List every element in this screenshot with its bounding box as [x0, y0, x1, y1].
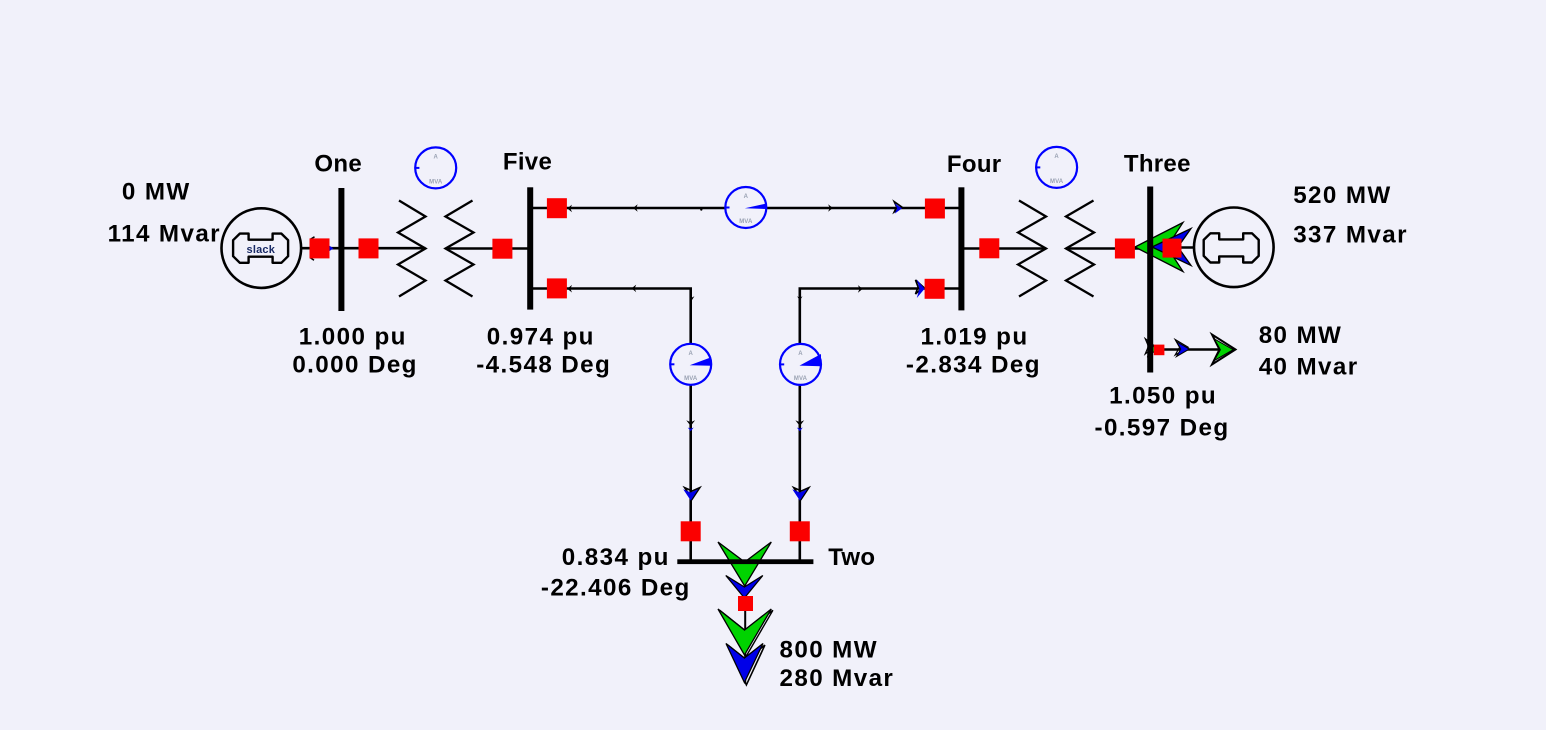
- svg-text:slack: slack: [247, 244, 276, 256]
- svg-text:Three: Three: [1124, 151, 1191, 178]
- svg-text:A: A: [744, 194, 749, 200]
- bus One: [338, 188, 344, 311]
- load Two arrowhead outline behind lower green: [720, 610, 773, 656]
- svg-text:Four: Four: [947, 151, 1002, 178]
- breaker left drop at Two: [681, 521, 701, 541]
- bus Three: [1147, 187, 1153, 373]
- breaker right drop at Two: [790, 521, 810, 541]
- load Three bus-side arrow MW (green): [1147, 341, 1157, 357]
- transformer T2 coil left: [1018, 201, 1046, 297]
- wire line Five to Two (left drop): [533, 289, 691, 560]
- tiny arrow below right corner: [797, 296, 802, 300]
- gen Three flow arrow MW (green, into bus): [1135, 223, 1183, 272]
- svg-text:-2.834 Deg: -2.834 Deg: [906, 352, 1041, 379]
- breaker T2 - bus Three: [1115, 239, 1135, 259]
- wire bus One to transformer T1: [344, 247, 426, 250]
- svg-text:114 Mvar: 114 Mvar: [108, 220, 221, 247]
- arrow on right drop line mid (black, right): [858, 285, 863, 293]
- bus Two: [677, 559, 813, 564]
- generator at bus Three: [1194, 208, 1274, 288]
- wire load Three stem: [1150, 348, 1234, 350]
- transformer T1 coil left: [398, 201, 426, 297]
- load Three mid arrow outline: [1175, 340, 1188, 355]
- tiny arrow below left corner: [690, 296, 695, 300]
- wire bus Four to transformer T2: [964, 247, 1046, 250]
- breaker load Three: [1154, 345, 1165, 356]
- svg-text:0 MW: 0 MW: [122, 179, 191, 206]
- arrow on left drop line near Five (black, left): [567, 285, 572, 293]
- load Three arrow MW (green): [1214, 339, 1233, 361]
- MVA gauge line Four-Two: [780, 344, 821, 385]
- svg-text:-4.548 Deg: -4.548 Deg: [476, 352, 611, 379]
- breaker bus Four - T2: [979, 238, 999, 258]
- load Two arrow Mvar lower (blue): [726, 644, 763, 683]
- svg-text:A: A: [688, 351, 693, 357]
- wire load Two stem: [744, 562, 746, 684]
- breaker T1 - bus Five: [492, 239, 512, 259]
- transformer T1 coil right: [446, 201, 474, 297]
- MVA gauge transformer T1: [415, 147, 456, 188]
- svg-text:One: One: [314, 150, 362, 177]
- svg-text:80 MW: 80 MW: [1259, 322, 1343, 349]
- svg-text:40 Mvar: 40 Mvar: [1259, 354, 1359, 381]
- arrow on top line mid-right (black, right): [828, 204, 833, 212]
- svg-text:A: A: [1054, 154, 1059, 160]
- wire line Four to Two (right drop): [800, 289, 959, 560]
- generator slack at bus One: [221, 208, 301, 288]
- svg-text:-22.406 Deg: -22.406 Deg: [541, 575, 691, 602]
- breaker bus One - T1: [359, 238, 379, 258]
- breaker bus Four lower line: [925, 279, 945, 299]
- svg-text:280 Mvar: 280 Mvar: [780, 665, 895, 692]
- load Two arrow Mvar upper (blue): [726, 576, 763, 599]
- breaker bus Five top line: [547, 198, 567, 218]
- MVA gauge line Five-Two: [670, 344, 711, 385]
- svg-text:-0.597 Deg: -0.597 Deg: [1095, 415, 1230, 442]
- breaker load Two: [738, 596, 753, 611]
- svg-text:800 MW: 800 MW: [780, 637, 878, 664]
- tiny flow marks near slack breaker: [310, 237, 315, 260]
- tiny blue arrow tip at bus One: [330, 246, 334, 251]
- svg-text:1.050 pu: 1.050 pu: [1109, 383, 1217, 410]
- gen Three flow arrow Mvar (blue, into bus): [1152, 229, 1191, 266]
- load Two arrowhead outline (black tip): [728, 645, 765, 685]
- load Two arrow MW upper (green): [718, 542, 771, 586]
- load Two arrow MW lower (green): [718, 609, 771, 655]
- svg-text:MVA: MVA: [794, 376, 808, 382]
- dot on top line: [700, 208, 702, 210]
- arrow down on left drop (black): [686, 420, 695, 431]
- svg-text:0.974 pu: 0.974 pu: [487, 323, 595, 350]
- breaker bus Four top line: [925, 199, 945, 219]
- arrow down blue on left drop: [683, 488, 700, 501]
- wire bus Three to gen Three: [1150, 246, 1194, 249]
- svg-text:337 Mvar: 337 Mvar: [1293, 222, 1408, 249]
- wire transformer T1 to bus Five: [446, 247, 529, 250]
- svg-text:MVA: MVA: [1050, 179, 1064, 185]
- arrow on top line near Five (black, left): [567, 205, 572, 213]
- wire gen One to bus One: [301, 247, 339, 250]
- svg-text:520 MW: 520 MW: [1293, 182, 1391, 209]
- svg-text:MVA: MVA: [739, 219, 753, 225]
- svg-text:0.834 pu: 0.834 pu: [562, 544, 670, 571]
- svg-text:1.000 pu: 1.000 pu: [299, 323, 407, 350]
- svg-text:A: A: [798, 351, 803, 357]
- wire line Five-Four top: [533, 207, 959, 210]
- arrow on top line mid-left (black, left): [633, 204, 638, 212]
- svg-text:Five: Five: [503, 149, 552, 176]
- svg-text:1.019 pu: 1.019 pu: [921, 323, 1029, 350]
- arrow on left drop line mid (black, left): [632, 285, 637, 293]
- load Three mid arrow Mvar (blue): [1176, 342, 1189, 357]
- arrow down on right drop (black): [795, 420, 804, 431]
- svg-text:Two: Two: [828, 544, 875, 571]
- load Three bus-side arrow outline: [1145, 339, 1155, 354]
- svg-text:MVA: MVA: [684, 376, 698, 382]
- breaker gen One - bus One: [310, 238, 330, 258]
- bus Four: [958, 187, 964, 310]
- breaker gen Three: [1163, 239, 1182, 258]
- transformer T2 coil right: [1066, 201, 1094, 297]
- breaker bus Five lower line: [547, 278, 567, 298]
- bus Five: [527, 187, 533, 309]
- svg-text:MVA: MVA: [429, 180, 443, 186]
- MVA gauge transformer T2: [1036, 147, 1077, 188]
- wire transformer T2 to bus Three: [1066, 247, 1147, 250]
- svg-text:A: A: [433, 155, 438, 161]
- svg-text:0.000 Deg: 0.000 Deg: [292, 352, 418, 379]
- arrow on right drop near Four breaker (blue, right): [916, 280, 925, 298]
- arrow down blue on right drop: [792, 488, 809, 501]
- load Three arrowhead outline (black): [1212, 335, 1236, 365]
- MVA gauge line Five-Four: [725, 187, 766, 228]
- arrow on top line near Four (blue, right): [894, 202, 902, 214]
